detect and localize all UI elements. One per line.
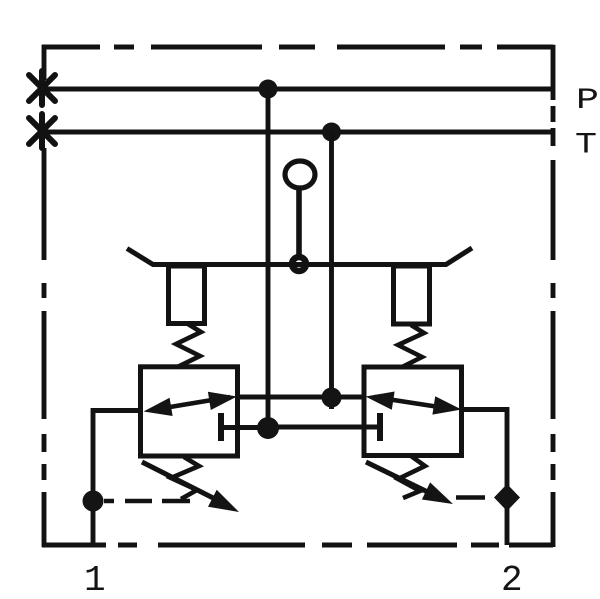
- left lower spring: [171, 457, 199, 499]
- lever bar: [127, 248, 472, 265]
- right lower spring: [398, 456, 425, 498]
- left upper spring: [176, 324, 201, 367]
- junction dot on T line: [322, 123, 341, 142]
- right upper spring: [398, 325, 424, 368]
- plugged port X on T line: [29, 114, 55, 148]
- lever pivot: [292, 257, 306, 271]
- right adjustment arrow: [366, 462, 453, 504]
- enclosure bottom border: [42, 543, 553, 548]
- right drain dashed wire: [456, 495, 485, 500]
- left pusher box: [169, 266, 205, 324]
- left valve flow arrow: [144, 392, 238, 416]
- svg-text:1: 1: [84, 560, 106, 599]
- junction dot port 1 branch: [83, 491, 104, 512]
- lever knob: [285, 161, 315, 188]
- wire right valve to port 2: [462, 410, 508, 546]
- junction diamond port 2 branch: [494, 484, 520, 511]
- left valve pilot tap: [221, 413, 268, 441]
- enclosure left border: [42, 45, 47, 547]
- wire between valves (T gallery): [237, 395, 364, 400]
- enclosure right border: [551, 45, 556, 547]
- plugged port X on P line: [29, 71, 55, 105]
- wire left valve to port 1: [93, 411, 141, 546]
- right pusher box: [394, 266, 430, 324]
- pilot junction dot: [257, 417, 279, 439]
- junction dot on T gallery: [322, 388, 342, 408]
- right valve flow arrow: [366, 392, 462, 415]
- right valve pilot tap: [268, 413, 380, 441]
- enclosure top border: [42, 45, 553, 50]
- left valve box: [141, 367, 238, 456]
- lever stem: [296, 188, 302, 256]
- svg-text:P: P: [576, 84, 599, 118]
- T return line: [42, 130, 553, 135]
- pilot drop wire from P: [266, 89, 271, 427]
- right valve box: [364, 367, 462, 456]
- left drain dashed wire: [104, 499, 190, 504]
- left adjustment arrow: [142, 462, 239, 512]
- svg-text:2: 2: [501, 560, 523, 599]
- junction dot on P line: [259, 80, 278, 99]
- pilot drop wire from T: [329, 132, 334, 409]
- svg-text:T: T: [575, 129, 597, 163]
- P supply line: [42, 87, 553, 92]
